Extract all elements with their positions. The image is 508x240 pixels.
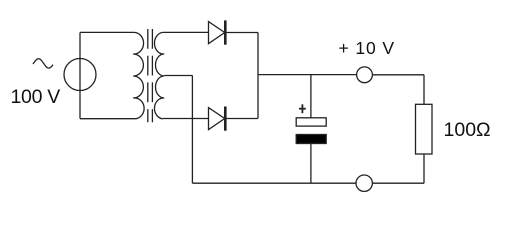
svg-text:100 V: 100 V xyxy=(11,86,61,108)
svg-text:+ 10 V: + 10 V xyxy=(339,38,395,58)
svg-text:100Ω: 100Ω xyxy=(444,119,491,141)
